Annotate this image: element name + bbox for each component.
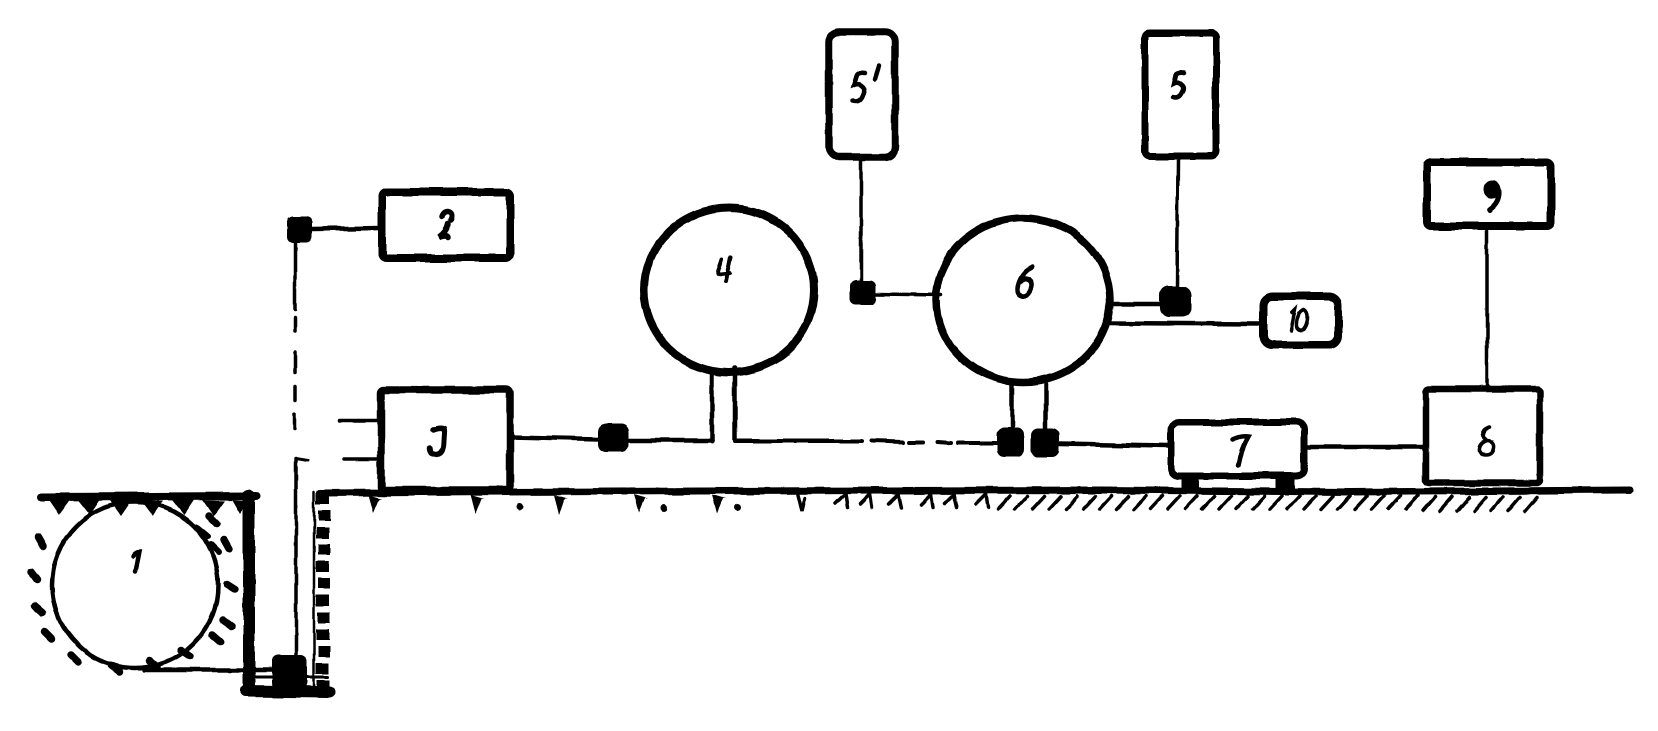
wire box 3 to junction blob — [509, 437, 600, 439]
wire box 7 to box 8 — [1304, 445, 1426, 450]
wire sphere 6 to box 10 — [1105, 323, 1260, 324]
wire box 5 down to blob — [1177, 158, 1178, 288]
ground slanted tick clusters — [798, 494, 988, 511]
pit floor — [246, 691, 330, 692]
box 7 feet — [1182, 476, 1199, 490]
cable sphere 4 to sphere 6 (part dashed) — [735, 441, 997, 443]
label 9 — [1484, 181, 1501, 210]
label 5 — [1173, 73, 1184, 99]
wire box 9 to box 8 — [1485, 229, 1489, 389]
node square under box 5' — [850, 280, 876, 305]
ground drip ticks — [368, 495, 741, 514]
label 7 — [1233, 437, 1248, 465]
ground diagonal hatching right — [998, 496, 1537, 511]
sphere 6 leg sensors — [997, 428, 1024, 457]
label 4 — [718, 257, 731, 282]
wire node to box 2 — [312, 228, 382, 229]
wire sphere 1 to pit sensor — [145, 668, 272, 673]
stub wires into box 3 — [339, 419, 380, 423]
node square under box 2 — [287, 216, 312, 242]
box 3 — [381, 390, 510, 490]
sphere 4 stem — [712, 368, 735, 441]
extra soil marks near wall — [196, 527, 219, 553]
wire blob to sphere 4 stem — [629, 438, 712, 443]
junction blob on cable — [598, 424, 629, 452]
box 8 — [1426, 389, 1540, 483]
label 6 — [1017, 267, 1032, 296]
box 2 — [382, 192, 510, 258]
label 3 — [429, 428, 444, 454]
label 5' — [853, 66, 879, 101]
wire sensors to box 7 — [1059, 444, 1168, 446]
box 7 — [1171, 422, 1304, 476]
wire sphere 6 to blob — [1108, 302, 1160, 307]
ground line over pit object — [42, 496, 256, 497]
ground line main — [320, 490, 1630, 493]
sphere 6 — [936, 218, 1110, 382]
label 2 — [439, 212, 452, 237]
sphere 6 legs — [1012, 384, 1046, 430]
wire box 5' down to node — [859, 160, 863, 280]
pit floor inner line — [252, 676, 328, 679]
sphere 4 — [644, 208, 814, 373]
buried sphere 1 — [52, 502, 218, 668]
label 10 — [1291, 310, 1308, 330]
ground hatch above sphere 1 — [48, 499, 248, 516]
pit right wall hatched — [314, 492, 330, 695]
pit left wall — [243, 496, 255, 688]
blob at sphere 6 right — [1160, 286, 1191, 317]
soil ticks around sphere 1 — [31, 516, 235, 672]
box 9 — [1427, 162, 1551, 226]
box 5' — [829, 32, 895, 157]
cable pit sensor up to node (dashed) — [295, 242, 308, 658]
label 8 — [1480, 427, 1494, 455]
box 10 — [1263, 296, 1338, 345]
geophone sensor in pit — [272, 655, 307, 688]
wire node to sphere 6 — [876, 294, 941, 295]
box 5 — [1145, 33, 1216, 156]
label 1 — [133, 552, 139, 571]
